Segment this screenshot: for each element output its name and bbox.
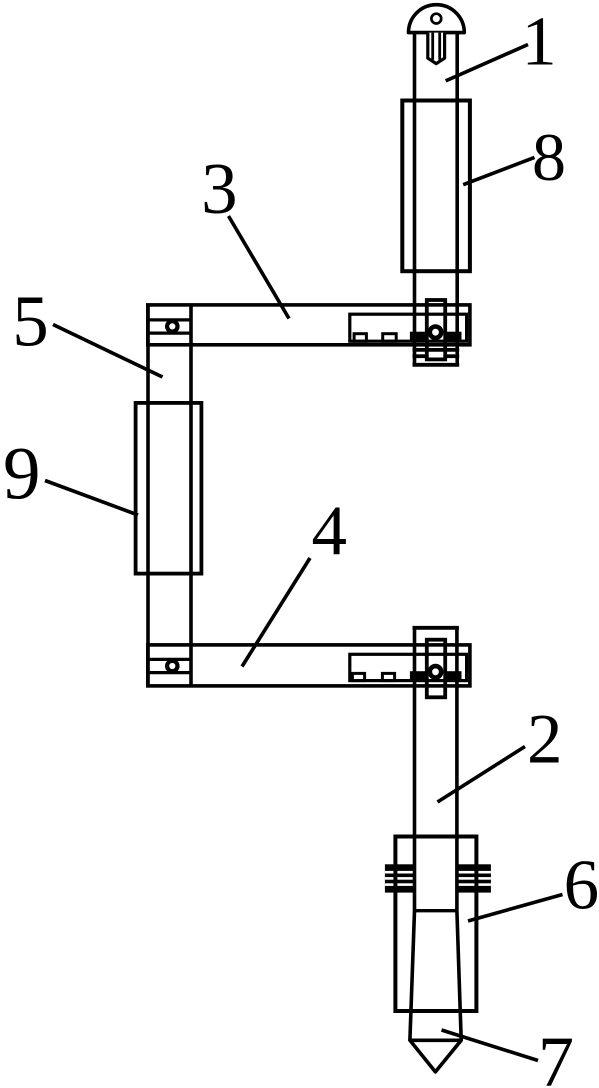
arm 4 band left xyxy=(410,671,428,682)
sleeve rect 9 xyxy=(136,403,202,574)
arm 3 inner rect xyxy=(350,314,467,341)
leader 1 xyxy=(446,45,528,81)
leader 3 xyxy=(229,216,290,319)
svg-text:5: 5 xyxy=(12,280,49,361)
arm 4 notch a xyxy=(352,673,364,680)
cap dome xyxy=(409,5,465,33)
svg-text:8: 8 xyxy=(532,119,566,195)
pivot pin upper xyxy=(430,327,441,338)
svg-text:6: 6 xyxy=(564,847,599,925)
rod upper (part 1 shaft) xyxy=(415,33,458,365)
leader 4 xyxy=(242,558,310,667)
hinge upper pin xyxy=(167,321,177,331)
svg-text:7: 7 xyxy=(538,1022,574,1088)
arm 3 notch b xyxy=(383,334,397,342)
arm 4 band right xyxy=(444,671,462,682)
leader 8 xyxy=(463,157,534,184)
hinge lower pin xyxy=(167,661,177,671)
bracket lower above arm xyxy=(413,626,459,630)
arm 3 band right xyxy=(444,332,462,343)
clamp lower xyxy=(427,640,445,698)
bracket upper below arm xyxy=(413,350,460,365)
svg-text:1: 1 xyxy=(522,4,557,81)
left column xyxy=(148,305,191,686)
arm 3 outer rect xyxy=(148,305,470,345)
leader 7 xyxy=(442,1030,539,1061)
hinge lower lines xyxy=(148,659,191,672)
rod lower (part 2 shaft) xyxy=(415,628,457,911)
plug key xyxy=(428,33,445,64)
svg-text:3: 3 xyxy=(201,148,238,229)
tab left xyxy=(385,864,416,892)
svg-text:9: 9 xyxy=(3,433,41,516)
arm 4 inner rect xyxy=(350,654,467,680)
leader 6 xyxy=(468,895,563,922)
hinge upper lines xyxy=(148,320,191,333)
leader 9 xyxy=(45,481,138,516)
pivot pin lower xyxy=(430,666,441,677)
leader 2 xyxy=(438,747,526,803)
arm 3 band left xyxy=(410,332,428,343)
chisel shoulder line xyxy=(415,909,457,912)
clamp upper xyxy=(427,300,445,359)
tip triangle 7 xyxy=(410,1040,461,1072)
plug inner lines xyxy=(433,33,440,60)
drill body rect 6 xyxy=(395,837,476,1012)
chisel taper lines xyxy=(410,911,461,1041)
svg-text:2: 2 xyxy=(527,700,563,778)
sleeve rect 8 xyxy=(402,101,470,272)
arm 3 notch a xyxy=(354,334,366,342)
tab right xyxy=(456,864,491,892)
arm 4 outer rect xyxy=(148,645,470,686)
cap ring hole xyxy=(431,14,441,24)
leader 5 xyxy=(53,325,163,378)
svg-text:4: 4 xyxy=(312,492,348,570)
arm 4 notch b xyxy=(382,673,394,680)
